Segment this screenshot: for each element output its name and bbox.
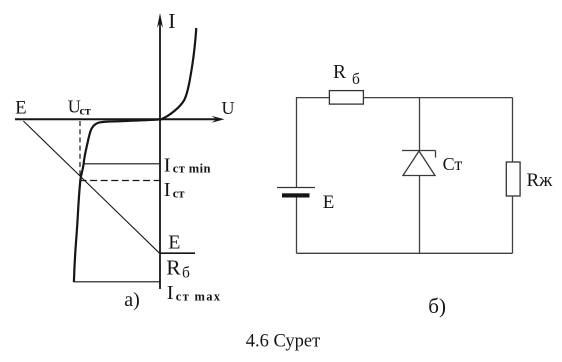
I_st label [164, 179, 185, 201]
svg-text:а): а) [124, 289, 140, 311]
svg-text:ст: ст [173, 187, 185, 201]
svg-text:R: R [166, 256, 181, 280]
U axis (horizontal) [15, 116, 225, 123]
resistor Rb label [333, 62, 360, 88]
wire right branch bottom [512, 196, 514, 253]
node E on U axis [15, 99, 26, 119]
I_st_max label [167, 282, 222, 304]
U axis label [222, 98, 235, 118]
wire top-left of circuit [297, 98, 330, 188]
caption 4.6 Suret [246, 332, 320, 352]
svg-text:I: I [168, 9, 175, 33]
wire middle branch top [419, 98, 421, 151]
svg-text:E: E [168, 232, 180, 254]
svg-text:U: U [222, 98, 235, 118]
battery E [277, 188, 315, 198]
wire bottom rail [297, 252, 513, 254]
svg-text:I: I [164, 154, 171, 176]
load line E to E/Rb [23, 121, 159, 253]
svg-text:Rж: Rж [527, 170, 554, 191]
svg-text:I: I [167, 282, 174, 304]
wire right branch top [512, 98, 514, 162]
svg-text:ст: ст [80, 104, 91, 118]
svg-text:б: б [182, 264, 190, 281]
I_st_min label [164, 154, 211, 176]
node U_st label [68, 97, 91, 118]
resistor Rb [329, 91, 363, 105]
svg-text:ст min: ст min [173, 162, 211, 176]
I_st_min level line [84, 163, 160, 165]
wire top rail right of Rb [363, 97, 512, 99]
svg-text:R: R [333, 62, 346, 83]
zener diode Ct [402, 151, 436, 176]
E over Rb fraction [160, 232, 196, 282]
svg-text:б): б) [428, 294, 446, 318]
I_st dashed level line [80, 180, 161, 182]
wire left bottom from battery [296, 198, 298, 254]
svg-text:4.6 Сурет: 4.6 Сурет [246, 332, 320, 352]
label b) [428, 294, 446, 318]
I_st_max level line [74, 281, 161, 283]
svg-text:E: E [15, 99, 26, 119]
resistor Rzh [506, 162, 520, 196]
I axis (vertical) [157, 13, 163, 289]
wire middle branch bottom [419, 176, 421, 254]
svg-text:ст max: ст max [176, 289, 222, 303]
zener Ct label [443, 154, 463, 174]
battery E label [323, 192, 335, 213]
svg-text:E: E [323, 192, 335, 213]
svg-text:б: б [352, 71, 360, 88]
resistor Rzh label [527, 170, 554, 191]
I axis label [168, 9, 175, 33]
svg-text:Ст: Ст [443, 154, 463, 174]
label a) [124, 289, 140, 311]
dashed line U_st [79, 121, 81, 180]
zener diode I-V curve [74, 28, 196, 282]
svg-text:I: I [164, 179, 171, 201]
